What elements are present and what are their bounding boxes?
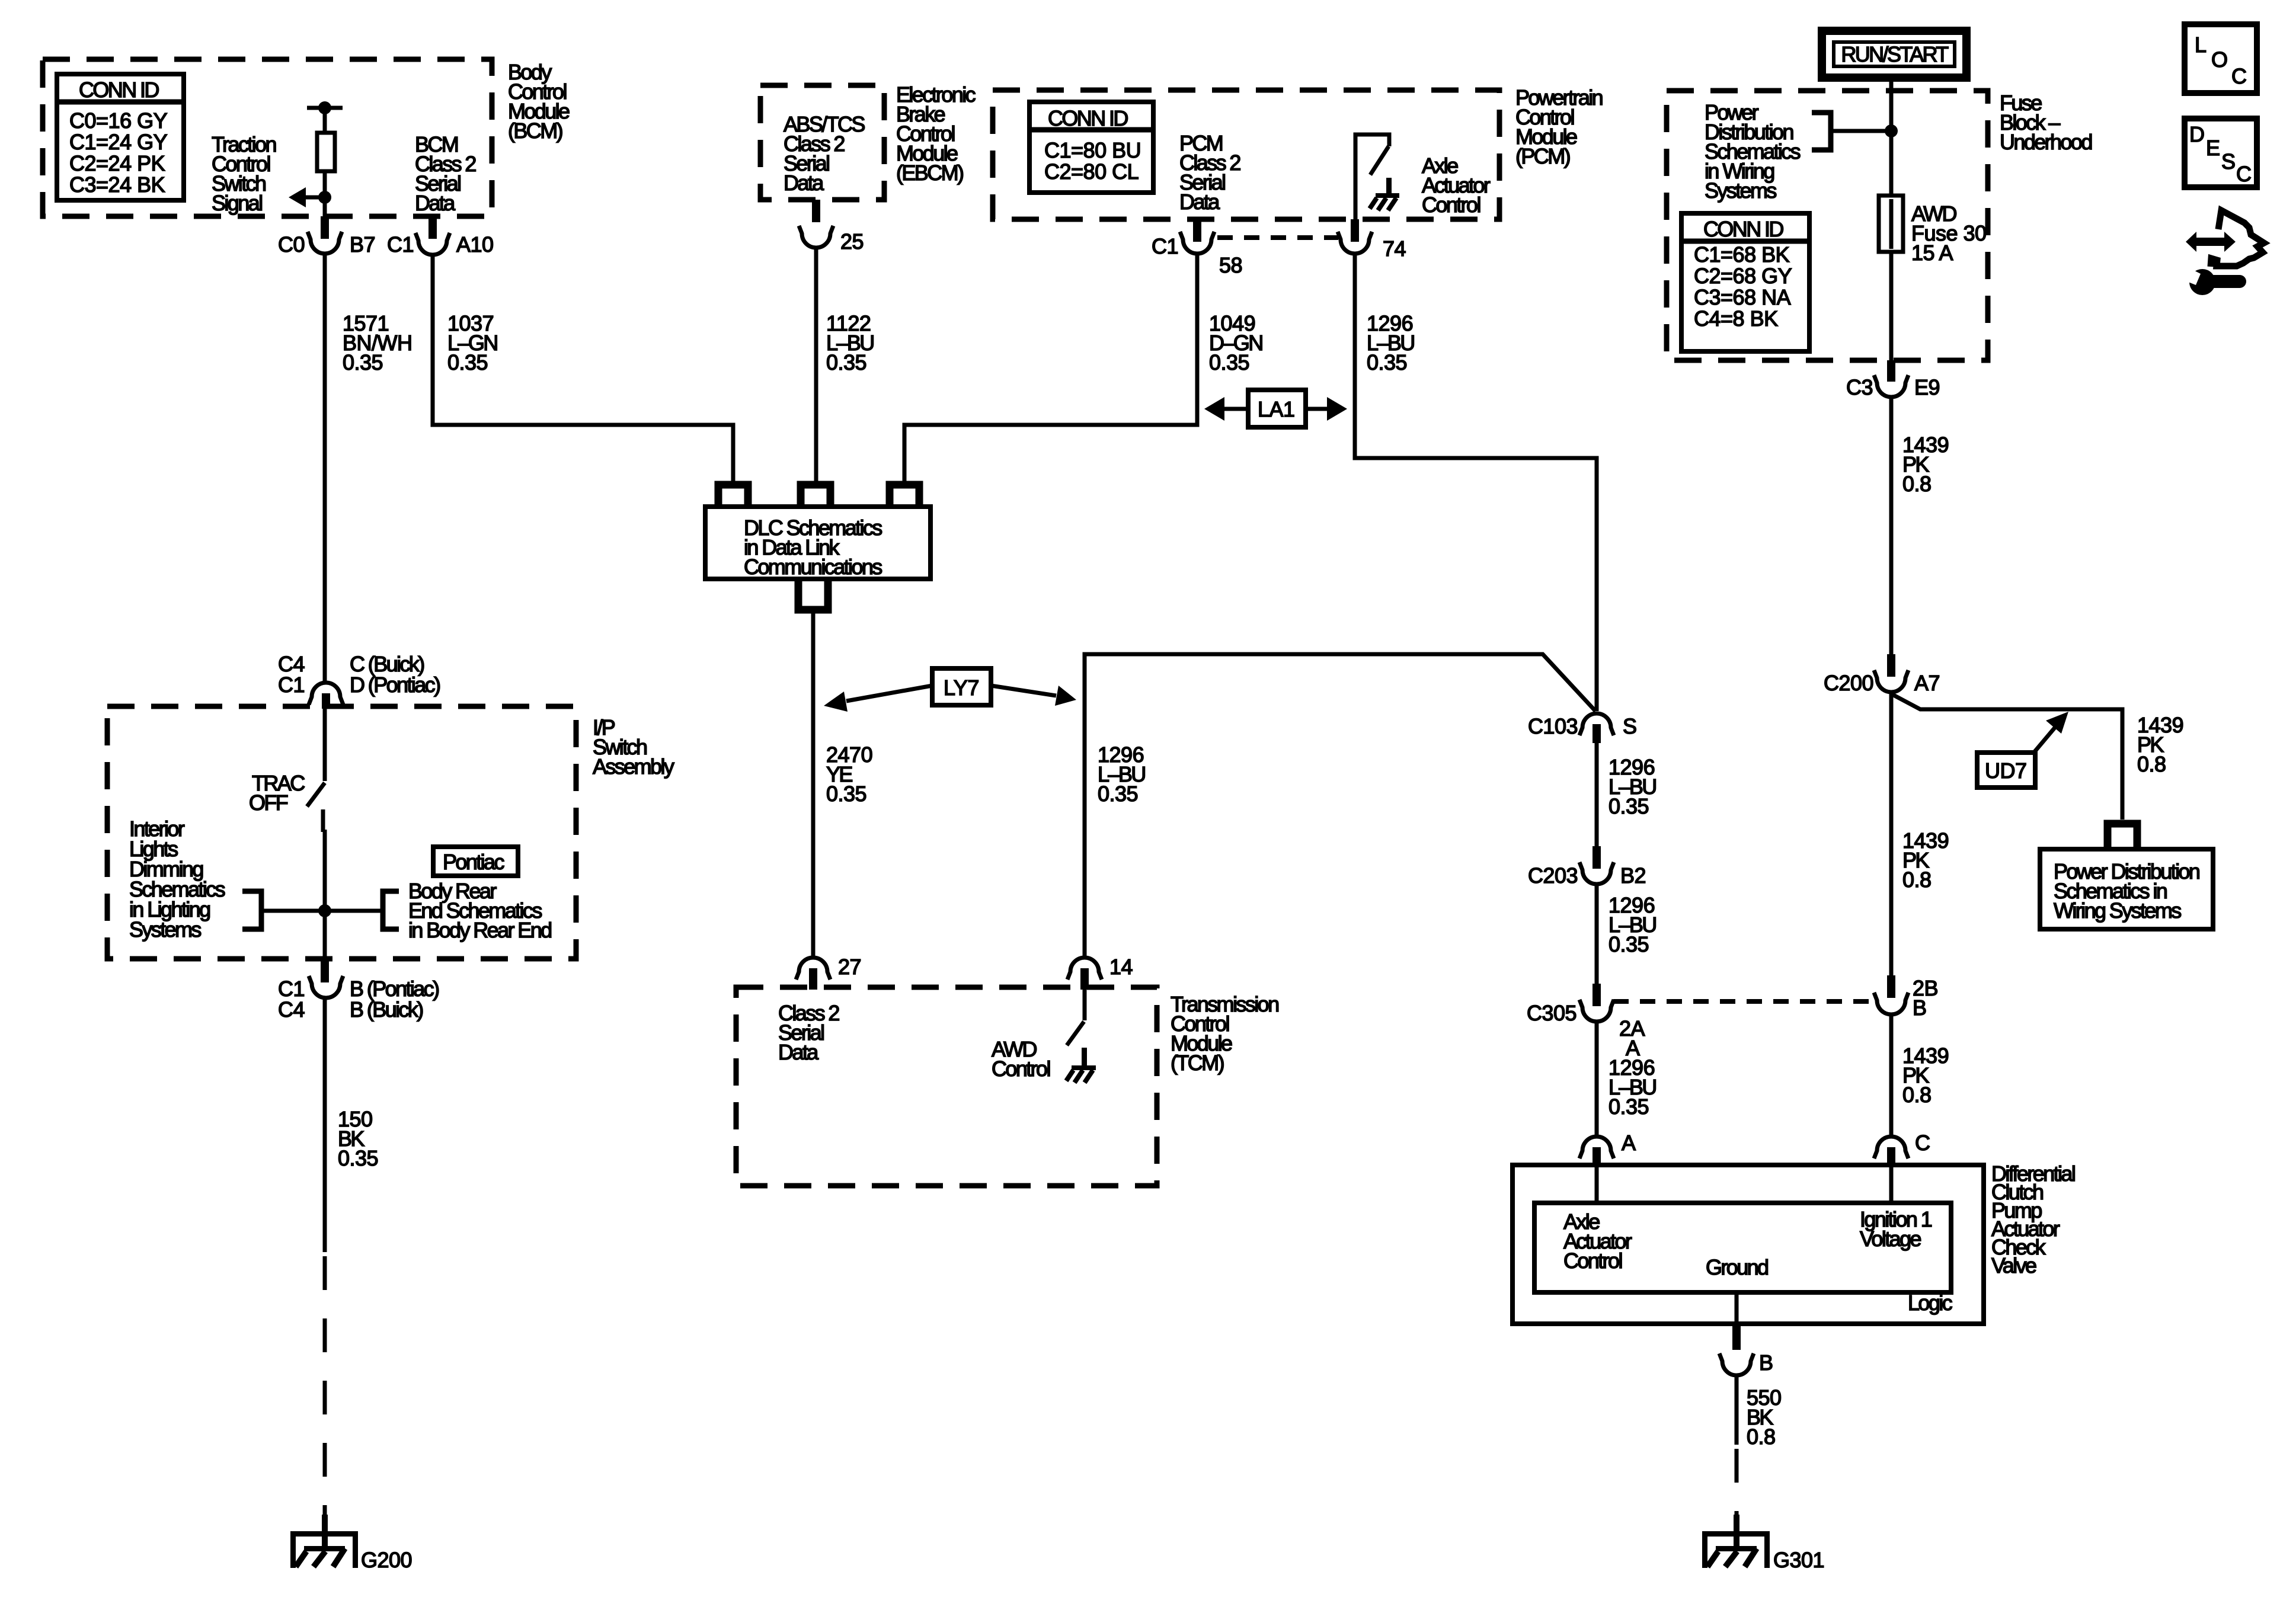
label Fuse Block - Underhood — [2000, 91, 2092, 154]
splice label LA1 with arrows — [1204, 390, 1347, 427]
svg-text:B2: B2 — [1620, 863, 1646, 888]
svg-text:C103: C103 — [1528, 714, 1578, 738]
svg-text:Data: Data — [1179, 190, 1220, 214]
internal pull-up T bar with junction — [307, 101, 343, 133]
connector C200 A7 — [1824, 654, 1940, 695]
svg-text:G200: G200 — [361, 1548, 412, 1572]
svg-text:E: E — [2206, 136, 2220, 160]
wire 550 BK 0.8 to ground G301 — [1737, 1375, 1782, 1528]
svg-text:B: B — [1759, 1350, 1773, 1375]
pin into power distribution box — [2108, 824, 2137, 849]
label Ignition 1 Voltage — [1860, 1207, 1932, 1251]
resistor (traction control switch pull-up) — [317, 133, 335, 171]
label Differential Clutch Pump Actuator Check Valve — [1991, 1161, 2075, 1278]
svg-text:CONN ID: CONN ID — [1048, 106, 1128, 130]
label Interior Lights Dimming Schematics in Lighting Systems — [129, 817, 225, 942]
connector C3 E9 — [1846, 360, 1940, 399]
connector C0 B7 — [278, 216, 375, 257]
connector C4/C1 C(Buick) D(Pontiac) — [278, 652, 440, 709]
dashed connector face line between 58 and 74 — [1217, 235, 1338, 240]
module box PCM (Powertrain Control Module) — [993, 90, 1499, 219]
svg-text:0.8: 0.8 — [1902, 1083, 1932, 1107]
switch TRAC OFF — [249, 709, 325, 832]
svg-text:C0=16 GY: C0=16 GY — [69, 108, 168, 133]
svg-text:C1=24 GY: C1=24 GY — [69, 130, 168, 154]
svg-text:Systems: Systems — [1705, 178, 1776, 203]
label Body Rear End Schematics in Body Rear End — [408, 879, 551, 942]
svg-text:Systems: Systems — [129, 917, 201, 942]
svg-text:E9: E9 — [1914, 375, 1940, 399]
svg-text:15 A: 15 A — [1911, 241, 1953, 265]
svg-text:C305: C305 — [1527, 1001, 1576, 1025]
label PCM Class 2 Serial Data — [1179, 131, 1240, 214]
wire 2470 YE 0.35 (DLC to TCM pin 27) — [811, 613, 816, 958]
fuse AWD Fuse 30 15 A — [1879, 196, 1987, 265]
svg-text:27: 27 — [838, 955, 861, 979]
wire resistor to node — [323, 171, 327, 216]
wire 1296 L-BU 0.35 (C203 to C305) — [1595, 884, 1599, 984]
svg-text:0.8: 0.8 — [2137, 752, 2166, 776]
connector C1 A10 — [387, 216, 494, 257]
svg-text:B7: B7 — [350, 232, 375, 257]
svg-text:C200: C200 — [1824, 671, 1873, 695]
wire 150 BK 0.35 to ground — [325, 997, 378, 1518]
svg-text:0.35: 0.35 — [826, 782, 866, 806]
svg-text:0.35: 0.35 — [1098, 782, 1138, 806]
DLC top pin middle — [801, 485, 830, 507]
label Power Distribution Schematics in Wiring Systems — [1705, 100, 1801, 203]
reference bracket left (interior lights dimming) — [242, 891, 261, 929]
svg-text:OFF: OFF — [249, 790, 288, 815]
svg-text:0.35: 0.35 — [343, 350, 383, 375]
reference box Power Distribution Schematics in Wiring Systems — [2040, 849, 2213, 929]
svg-text:0.8: 0.8 — [1747, 1425, 1776, 1449]
label Axle Actuator Control — [1422, 153, 1491, 217]
svg-text:Logic: Logic — [1908, 1291, 1953, 1315]
svg-text:0.8: 0.8 — [1902, 868, 1932, 892]
svg-text:(TCM): (TCM) — [1171, 1051, 1224, 1075]
switch AWD Control with ground — [992, 990, 1096, 1083]
svg-text:C3=24 BK: C3=24 BK — [69, 172, 165, 197]
node with left arrow (signal tap) — [289, 187, 331, 207]
svg-text:Data: Data — [415, 191, 456, 215]
svg-text:B (Buick): B (Buick) — [350, 997, 423, 1022]
svg-text:Control: Control — [1563, 1249, 1622, 1273]
svg-text:LA1: LA1 — [1258, 397, 1295, 421]
ground G200 — [290, 1515, 412, 1572]
svg-text:Underhood: Underhood — [2000, 130, 2092, 154]
legend icon repair (arrow, outline, wrench) — [2181, 210, 2264, 295]
svg-text:0.35: 0.35 — [1609, 932, 1649, 956]
DLC Schematics reference box — [705, 507, 930, 579]
wire branch 1439 PK 0.8 (C200 A7 to power distribution) — [1892, 694, 2183, 820]
connector C (diff clutch pump) — [1874, 1131, 1930, 1165]
axle actuator driver (internal switch to ground) — [1355, 135, 1399, 219]
wire bracket to bracket with junction on switch wire — [261, 904, 383, 917]
connector pin 74 — [1338, 219, 1406, 261]
svg-text:C203: C203 — [1528, 863, 1578, 888]
wire C pin into logic — [1889, 1165, 1894, 1203]
wire 1439 PK 0.8 (C200 A7 to 2B B) — [1891, 692, 1949, 984]
svg-text:C4=8 BK: C4=8 BK — [1694, 306, 1778, 331]
wire RUN/START into fuse — [1889, 78, 1894, 196]
connector pin 14 (TCM) — [1067, 955, 1133, 990]
connector B (diff clutch pump) — [1719, 1324, 1773, 1375]
svg-text:0.35: 0.35 — [338, 1146, 378, 1170]
svg-text:0.35: 0.35 — [1609, 794, 1649, 818]
svg-text:Control: Control — [1422, 193, 1480, 217]
svg-text:Control: Control — [992, 1057, 1050, 1081]
svg-text:0.8: 0.8 — [1902, 472, 1932, 496]
svg-text:RUN/START: RUN/START — [1841, 42, 1949, 66]
svg-text:Ground: Ground — [1706, 1255, 1768, 1279]
reference bracket (power distribution) — [1812, 113, 1831, 150]
legend icon DESC — [2185, 119, 2257, 187]
device box Differential Clutch Pump Actuator Check Valve — [1512, 1165, 1984, 1324]
Pontiac tag box — [433, 847, 518, 876]
svg-text:Communications: Communications — [744, 555, 882, 579]
connector C1/C4 B(Pontiac) B(Buick) — [278, 959, 439, 1022]
svg-text:C3=68 NA: C3=68 NA — [1694, 285, 1791, 309]
legend icon LOC — [2185, 24, 2257, 93]
svg-text:C1: C1 — [1152, 234, 1178, 258]
svg-text:A: A — [1622, 1131, 1636, 1155]
connector C1 pin 58 — [1152, 219, 1242, 277]
svg-text:C1=80 BU: C1=80 BU — [1044, 138, 1141, 162]
svg-text:0.35: 0.35 — [447, 350, 488, 375]
svg-text:C2=24 PK: C2=24 PK — [69, 151, 165, 175]
reference bracket right (body rear end) — [383, 891, 399, 929]
wire fuse to C3 E9 — [1889, 252, 1894, 360]
CONN ID table (PCM) — [1029, 102, 1153, 193]
label ABS/TCS Class 2 Serial Data — [784, 112, 865, 195]
wire 1037 L-GN 0.35 (A10 to DLC) — [433, 255, 733, 483]
CONN ID table (fuse block) — [1681, 213, 1809, 351]
connector 2B B — [1874, 975, 1938, 1020]
svg-text:D (Pontiac): D (Pontiac) — [350, 673, 440, 697]
svg-text:C2=68 GY: C2=68 GY — [1694, 264, 1792, 288]
svg-text:C2=80 CL: C2=80 CL — [1044, 159, 1139, 184]
svg-text:(PCM): (PCM) — [1515, 144, 1570, 168]
splice label UD7 with arrow — [1977, 712, 2068, 788]
svg-text:25: 25 — [840, 229, 864, 254]
module box Fuse Block - Underhood — [1667, 91, 1988, 360]
svg-text:14: 14 — [1109, 955, 1133, 979]
DLC top pin right — [890, 485, 919, 507]
svg-text:C1: C1 — [278, 673, 305, 697]
label Transmission Control Module (TCM) — [1171, 992, 1278, 1075]
svg-text:S: S — [1623, 714, 1636, 738]
connector C203 B2 — [1528, 846, 1646, 888]
svg-text:Signal: Signal — [212, 191, 262, 215]
svg-text:Assembly: Assembly — [593, 754, 674, 779]
connector pin 25 — [799, 200, 864, 254]
svg-text:A10: A10 — [456, 232, 494, 257]
label I/P Switch Assembly — [593, 715, 674, 779]
svg-text:L: L — [2195, 33, 2206, 57]
svg-text:Data: Data — [778, 1040, 819, 1064]
dashed connector line C305 to 2B — [1613, 999, 1875, 1004]
wire 1296 L-BU 0.35 (TCM 14 to C103 junction) — [1085, 654, 1595, 958]
connector A (diff clutch pump) — [1579, 1131, 1636, 1165]
label Powertrain Control Module (PCM) — [1515, 85, 1603, 168]
svg-text:B: B — [1913, 996, 1926, 1020]
label Body Control Module (BCM) — [508, 60, 570, 143]
DLC top pin left — [718, 485, 748, 507]
svg-text:Valve: Valve — [1991, 1253, 2036, 1278]
power feed tag RUN/START — [1822, 31, 1966, 78]
connector C305 2A/A — [1527, 984, 1645, 1060]
svg-text:CONN ID: CONN ID — [1703, 217, 1783, 241]
CONN ID table (BCM) — [57, 74, 184, 200]
module box I/P Switch Assembly — [107, 706, 576, 959]
label Electronic Brake Control Module (EBCM) — [896, 82, 976, 185]
splice label LY7 with arrows — [824, 668, 1076, 712]
svg-text:0.35: 0.35 — [1209, 350, 1249, 375]
svg-text:C: C — [2231, 64, 2246, 88]
svg-text:(EBCM): (EBCM) — [896, 161, 963, 185]
wire switch to splice junction — [323, 830, 327, 959]
module box TCM (Transmission Control Module) — [736, 987, 1157, 1186]
connector C103 S — [1528, 713, 1636, 743]
svg-text:LY7: LY7 — [944, 676, 979, 700]
svg-text:58: 58 — [1219, 253, 1242, 277]
svg-text:(BCM): (BCM) — [508, 119, 562, 143]
svg-text:Voltage: Voltage — [1860, 1227, 1921, 1251]
connector pin 27 (TCM) — [796, 955, 861, 990]
wire 1049 D-GN 0.35 (PCM 58 to DLC) — [904, 255, 1197, 483]
ground G301 — [1702, 1515, 1824, 1572]
svg-text:C1=68 BK: C1=68 BK — [1694, 242, 1790, 267]
wire 1571 BN/WH 0.35 (C0 B7 down to I/P switch) — [323, 252, 327, 682]
wire 1296 L-BU 0.35 (PCM 74 to C103) — [1355, 255, 1597, 711]
wire 1296 L-BU 0.35 (C305 to diff pump A) — [1595, 1021, 1599, 1137]
svg-text:C: C — [1915, 1131, 1930, 1155]
module box BCM (Body Control Module) — [43, 59, 492, 216]
svg-text:UD7: UD7 — [1985, 758, 2027, 783]
svg-text:S: S — [2221, 149, 2235, 174]
wire A pin into logic — [1595, 1165, 1599, 1203]
svg-text:Wiring Systems: Wiring Systems — [2054, 898, 2181, 923]
module box EBCM (Electronic Brake Control Module) — [760, 85, 884, 200]
svg-text:C0: C0 — [278, 232, 305, 257]
wire 1439 PK 0.8 (C3 E9 to C200 A7) — [1891, 396, 1949, 657]
label Traction Control Switch Signal — [212, 132, 276, 215]
wire ground pin out of box — [1735, 1292, 1739, 1324]
svg-text:G301: G301 — [1773, 1548, 1824, 1572]
svg-text:C: C — [2236, 162, 2251, 186]
svg-text:in Body Rear End: in Body Rear End — [408, 918, 551, 942]
svg-text:D: D — [2189, 122, 2204, 146]
wire 1296 L-BU 0.35 (C103 to C203) — [1595, 743, 1599, 847]
svg-text:O: O — [2211, 47, 2227, 72]
svg-text:A7: A7 — [1914, 671, 1940, 695]
svg-text:0.35: 0.35 — [1609, 1094, 1649, 1119]
label Class 2 Serial Data (TCM) — [778, 1001, 839, 1064]
logic box — [1534, 1203, 1951, 1292]
label Axle Actuator Control (logic) — [1563, 1209, 1632, 1273]
wire bracket to feed junction — [1831, 124, 1898, 137]
label BCM Class 2 Serial Data — [415, 132, 476, 215]
wire 1439 PK 0.8 (2B B to diff pump C) — [1891, 1014, 1949, 1137]
svg-text:74: 74 — [1383, 236, 1406, 261]
wire 1122 L-BU 0.35 (EBCM to DLC) — [814, 247, 818, 483]
svg-text:Data: Data — [784, 171, 824, 195]
svg-text:0.35: 0.35 — [1367, 350, 1407, 375]
DLC bottom pin — [798, 579, 828, 610]
svg-text:0.35: 0.35 — [826, 350, 866, 375]
svg-text:C1: C1 — [387, 232, 414, 257]
svg-text:Pontiac: Pontiac — [443, 850, 504, 874]
svg-text:C4: C4 — [278, 997, 305, 1022]
svg-text:C3: C3 — [1846, 375, 1873, 399]
svg-text:CONN ID: CONN ID — [79, 78, 159, 102]
